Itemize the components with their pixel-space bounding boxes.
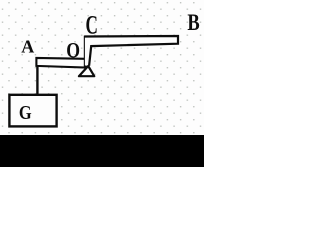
svg-text:O: O xyxy=(66,38,80,63)
paper background xyxy=(0,0,204,167)
black band at bottom xyxy=(0,135,204,167)
svg-text:G: G xyxy=(19,102,32,124)
svg-text:B: B xyxy=(187,10,199,35)
upper bar C-B interior xyxy=(85,36,178,66)
lever bar A-O (outlined) xyxy=(36,58,85,68)
hanger wire from lever end A down to box xyxy=(36,64,38,94)
fulcrum triangle at O xyxy=(79,66,94,76)
weight box G xyxy=(9,95,56,127)
upper bar C-B (outlined, open at left) xyxy=(84,36,178,66)
svg-text:A: A xyxy=(21,37,34,57)
svg-text:C: C xyxy=(86,11,98,40)
riser O-C (vertical member) xyxy=(84,36,86,67)
